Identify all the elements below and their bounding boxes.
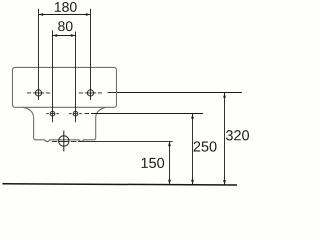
dimension line 150 vertical (169, 141, 171, 184)
label 250 (194, 141, 217, 151)
arrow left of 80 (53, 34, 58, 37)
small hole middle-right (73, 111, 78, 116)
arrow top of 250 (191, 114, 194, 119)
extension line left hole (180 dim) (38, 9, 40, 100)
extension line small right hole (80 dim) (75, 32, 77, 123)
pedestal outline with transition curves and bottom tabs (23, 107, 107, 141)
bottom hole horizontal dash-dot centerline (52, 140, 84, 142)
bottom drain hole (59, 136, 69, 146)
dimension line 320 vertical (224, 93, 226, 185)
floor line (2, 184, 237, 185)
dimension line 180 (39, 14, 91, 16)
label 150 (142, 158, 165, 168)
label 80 (58, 21, 72, 31)
label 180 (55, 2, 77, 12)
arrow bottom of 150 (168, 180, 171, 185)
dimension line 250 vertical (192, 114, 194, 185)
height reference line 150 (drain hole level) (84, 140, 173, 142)
small hole left horizontal centerline (46, 113, 59, 115)
mounting hole top-right (87, 90, 93, 96)
hole top-right horizontal centerline (79, 92, 102, 94)
height reference line 250 (small holes level) (91, 113, 203, 115)
extension line right hole (180 dim) (90, 9, 92, 100)
arrow right of 180 (86, 13, 91, 16)
arrow left of 180 (39, 13, 44, 16)
dimension line 80 (53, 35, 76, 37)
centerline dash to body edge (108, 92, 117, 94)
bottom hole vertical centerline (63, 131, 65, 152)
label 320 (226, 130, 249, 140)
fixture body (upper tank, rear view outline) (13, 67, 117, 107)
extension line small left hole (80 dim) (52, 30, 54, 122)
arrow top of 320 (223, 93, 226, 98)
mounting hole top-left (35, 90, 41, 96)
arrow bottom of 320 (223, 180, 226, 185)
small hole right horizontal centerline (69, 113, 82, 115)
arrow top of 150 (168, 141, 171, 146)
height reference line 320 (top holes level) (117, 92, 242, 94)
centerline dash after small hole (85, 113, 90, 115)
hole top-left horizontal centerline (27, 92, 50, 94)
small hole middle-left (50, 111, 55, 116)
arrow right of 80 (71, 34, 76, 37)
arrow bottom of 250 (191, 180, 194, 185)
